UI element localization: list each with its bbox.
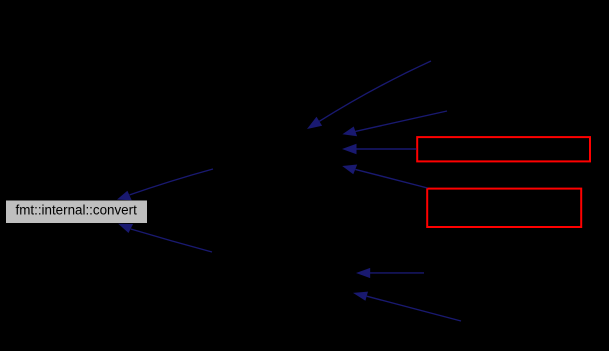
node (red box 1, truncated caller) [417,137,590,161]
node fmt::internal::convert (root) [6,201,147,224]
wire arrow edge 5 [356,268,424,278]
wire arrow edge 4 (from red box 2) [342,165,427,189]
wire arrow edge 3 (from red box 1) [342,144,417,155]
wire arrow edge 1 [307,61,431,129]
wire arrow edge 2 [342,111,447,136]
svg-text:fmt::internal::convert: fmt::internal::convert [16,203,138,218]
wire arrow edge 8 (into root bottom) [118,224,212,252]
wire arrow edge 7 (into root top) [117,169,213,200]
wire arrow edge 6 [353,292,461,321]
node (red box 2, truncated caller) [427,189,581,227]
